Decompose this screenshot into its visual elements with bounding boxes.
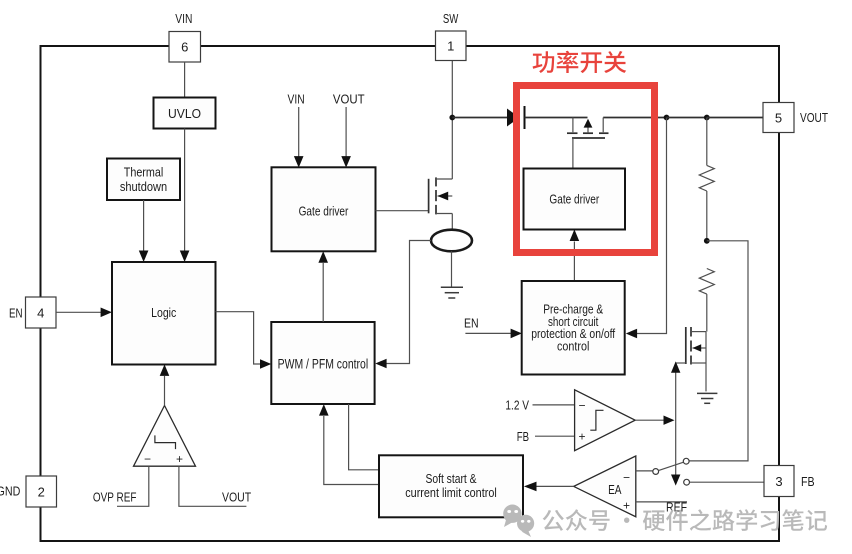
diode D1 xyxy=(507,106,525,129)
svg-text:FB: FB xyxy=(517,429,529,444)
WMICON xyxy=(503,505,521,523)
svg-text:VOUT: VOUT xyxy=(222,490,251,505)
wire: node A to divider node xyxy=(667,117,707,119)
ground (below Q3) xyxy=(697,393,717,403)
block Gate driver (right) xyxy=(524,169,626,230)
transistor Q1 N-MOSFET (main switch) xyxy=(429,118,453,231)
wire: divider node to pin 5 xyxy=(707,117,763,119)
wire: EN into Pre-charge with arrow xyxy=(465,329,522,339)
svg-text:5: 5 xyxy=(775,111,782,126)
node SW junction xyxy=(449,115,455,121)
svg-text:PWM / PFM control: PWM / PFM control xyxy=(278,357,369,372)
wire: EA inverting input to switch pole xyxy=(636,470,653,472)
block Soft start & current limit control xyxy=(379,455,523,517)
svg-text:GND: GND xyxy=(0,484,20,499)
switch S1 blade xyxy=(658,462,683,470)
svg-text:UVLO: UVLO xyxy=(168,106,201,121)
watermark text 公众号·硬件之路学习笔记 xyxy=(543,509,828,531)
svg-text:−: − xyxy=(579,399,586,413)
svg-text:control: control xyxy=(557,338,589,353)
block Gate driver (left) xyxy=(272,167,376,251)
svg-text:VOUT: VOUT xyxy=(800,110,828,125)
svg-text:4: 4 xyxy=(37,306,44,321)
svg-text:Gate driver: Gate driver xyxy=(549,192,599,207)
wire: FB to comparator xyxy=(535,435,575,437)
svg-text:VIN: VIN xyxy=(288,92,305,107)
wire: Gate driver to Q1 gate xyxy=(376,210,429,212)
pin 1 SW xyxy=(436,31,467,61)
wire: Q2 to VOUT node xyxy=(603,117,666,119)
wire+label OVP REF (inverting input) xyxy=(93,466,149,506)
wire: OVP output to Logic with arrow xyxy=(160,364,170,405)
current sensor (sense element) xyxy=(431,230,472,252)
IC boundary xyxy=(41,46,780,541)
wire: PWM to Soft start xyxy=(349,404,379,470)
block PWM / PFM control xyxy=(271,322,374,404)
wire: node A down and into Pre-charge with arrow xyxy=(626,118,667,339)
svg-text:Soft start &: Soft start & xyxy=(425,471,476,486)
resistor R2 (lower divider) xyxy=(699,269,714,332)
wire: Soft start to PWM with arrow xyxy=(319,404,379,484)
svg-text:Gate driver: Gate driver xyxy=(299,204,349,219)
switch S1 throw 2 (FB pin) xyxy=(684,479,690,485)
wire: UVLO to Logic with arrow xyxy=(180,129,190,263)
svg-text:1.2 V: 1.2 V xyxy=(505,398,529,413)
wire: Logic to PWM/PFM with arrow xyxy=(216,312,272,369)
svg-text:current limit control: current limit control xyxy=(405,485,497,500)
svg-text:2: 2 xyxy=(38,485,45,500)
pin 3 FB xyxy=(764,466,794,497)
ground (below current sensor) xyxy=(441,287,463,298)
pin 2 GND xyxy=(26,476,57,507)
svg-text:shutdown: shutdown xyxy=(120,179,167,194)
svg-text:−: − xyxy=(623,471,630,485)
wire: sensor to ground xyxy=(451,251,453,287)
node divider mid xyxy=(704,238,710,244)
pin 5 VOUT xyxy=(763,103,794,133)
wire: PWM to Gate driver (left) with arrow xyxy=(318,251,328,322)
transistor Q2 P-MOSFET (power switch, horizontal) xyxy=(567,118,609,169)
wire+label REF (EA non-inverting input) xyxy=(636,500,687,515)
label 功率开关 (red) xyxy=(533,51,627,73)
svg-text:FB: FB xyxy=(801,474,815,489)
svg-text:VOUT: VOUT xyxy=(333,92,365,107)
svg-text:OVP REF: OVP REF xyxy=(93,490,137,505)
svg-text:+: + xyxy=(579,430,586,444)
svg-text:1: 1 xyxy=(447,39,454,54)
wire: control line vertical with arrows to Q3 gate and switch xyxy=(671,361,680,485)
svg-text:+: + xyxy=(176,452,183,466)
wire: pin 4 to Logic with arrow xyxy=(56,308,112,318)
wire: comparator output with arrow to control line xyxy=(635,416,674,425)
wire: Pre-charge to Gate driver (right) with arrow xyxy=(570,229,580,281)
pin 4 EN xyxy=(26,297,57,328)
wire: node to diode xyxy=(452,117,507,119)
comparator U3 (1.2V vs FB) xyxy=(575,390,636,451)
svg-text:EN: EN xyxy=(464,316,479,331)
wire: VIN arrow into Gate driver xyxy=(294,107,304,168)
node VOUT line junction A xyxy=(664,115,670,121)
pin 6 VIN xyxy=(169,32,201,63)
node divider top xyxy=(704,115,710,121)
red highlight box (power switch) xyxy=(517,86,655,253)
wire: 1.2V to comparator xyxy=(533,404,575,406)
wire: VOUT arrow into Gate driver xyxy=(341,107,351,168)
wire: SW pin 1 down to node xyxy=(451,61,453,118)
wire+label VOUT (non-inverting input) xyxy=(179,466,251,506)
svg-text:+: + xyxy=(623,499,630,513)
wire: EA output to Soft start with arrow xyxy=(524,482,574,492)
watermark icon (chat bubbles) xyxy=(503,505,534,538)
svg-text:EN: EN xyxy=(9,306,23,321)
wire: pin 6 to UVLO xyxy=(184,62,186,98)
svg-text:SW: SW xyxy=(443,11,459,26)
svg-text:EA: EA xyxy=(608,482,622,497)
svg-text:Thermal: Thermal xyxy=(124,165,164,180)
wire: Thermal shutdown to Logic with arrow xyxy=(139,200,149,262)
block UVLO xyxy=(154,98,216,129)
svg-text:VIN: VIN xyxy=(175,11,192,26)
switch S1 pole xyxy=(653,469,659,475)
comparator OVP (points up) xyxy=(134,406,196,467)
switch S1 throw 1 (divider tap) xyxy=(683,458,689,464)
wire: divider tap to switch throw 1 xyxy=(689,241,748,461)
transistor Q3 N-MOSFET (divider disconnect) xyxy=(676,327,706,391)
svg-text:−: − xyxy=(144,452,151,466)
svg-text:6: 6 xyxy=(181,40,188,55)
svg-text:Logic: Logic xyxy=(151,305,177,320)
block Logic xyxy=(112,262,216,365)
resistor R1 (upper divider) xyxy=(699,118,714,241)
svg-text:3: 3 xyxy=(775,474,782,489)
wire: diode to Q2 xyxy=(525,117,588,119)
wire: current sense to PWM with arrow xyxy=(375,241,431,369)
wire: throw 2 to pin 3 xyxy=(690,481,765,483)
block Thermal shutdown xyxy=(107,159,180,201)
block Pre-charge & short circuit protection & on/off control xyxy=(522,281,625,375)
error amplifier EA xyxy=(574,456,636,517)
